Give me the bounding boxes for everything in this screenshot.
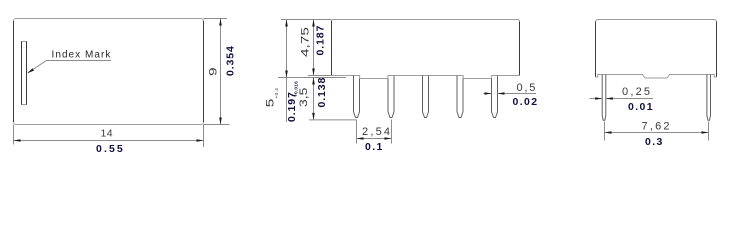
dim 2.54 left arrowhead [357, 137, 364, 140]
top view right edge (dark) [203, 21, 205, 122]
leader line to index mark [28, 61, 111, 73]
dim 2.54 extension line left [356, 120, 358, 144]
leader arrowhead [27, 68, 34, 73]
dim 3.5 bottom arrowhead [312, 113, 315, 120]
dim 3.5 top arrowhead [312, 78, 315, 85]
dim 3.5 dimension line [313, 78, 315, 120]
side view left edge (dark) [595, 22, 597, 77]
svg-text:0.01: 0.01 [628, 101, 654, 113]
svg-text:0.3: 0.3 [645, 136, 664, 148]
dim 0.25 left-pointing arrowhead [606, 97, 613, 100]
svg-text:0,25: 0,25 [622, 86, 652, 98]
dim 0.5 left line [484, 93, 492, 95]
dim 0.5 left-pointing arrowhead [498, 92, 505, 95]
front view left edge (dark) [331, 21, 333, 75]
svg-text:7,62: 7,62 [642, 120, 672, 132]
svg-text:0.138: 0.138 [316, 77, 328, 108]
dim 14 right arrowhead [197, 139, 204, 142]
dim 4.75 dimension line [313, 20, 315, 76]
svg-text:0.354: 0.354 [225, 45, 237, 76]
dim 0.5 right line and shelf [498, 93, 537, 95]
dim 14 left arrowhead [14, 139, 21, 142]
dim 2.54 right arrowhead [385, 137, 392, 140]
side view body outline with feet and center recess [596, 20, 717, 79]
index mark bar [22, 42, 27, 105]
dim 7.62 left arrowhead [605, 131, 612, 134]
dim 7.62 extension line right [708, 122, 710, 141]
dim 5 text stem [286, 78, 288, 123]
extension line top edge left [281, 19, 332, 21]
dim 9 top arrowhead [219, 19, 222, 26]
side view right edge (dark) [716, 22, 718, 77]
dim 9 bottom arrowhead [219, 118, 222, 125]
dim 5 top arrowhead [285, 20, 288, 27]
dim 5 dimension line [286, 20, 288, 78]
top view body outline [14, 19, 204, 125]
dim 7.62 extension line left [604, 122, 606, 141]
dim 9 dimension line [220, 19, 222, 125]
dim 2.54 dimension line [357, 138, 392, 140]
svg-text:Index Mark: Index Mark [52, 50, 112, 61]
extension line pin bottom [309, 119, 357, 121]
dim 9 extension line top [204, 18, 228, 20]
front view bottom edge segments across pins [388, 75, 498, 77]
extension line standoff bottom [278, 77, 346, 79]
dim 0.25 right line and shelf [606, 98, 653, 100]
front view body outline with standoff recesses [332, 20, 520, 79]
svg-text:5: 5 [264, 99, 276, 108]
dim 0.25 left line [590, 98, 603, 100]
index mark bar edges (dark) [21, 42, 23, 105]
svg-text:14: 14 [101, 128, 113, 140]
dim 4.75 top arrowhead [312, 20, 315, 27]
svg-text:0.55: 0.55 [96, 143, 125, 155]
svg-text:9: 9 [207, 67, 219, 76]
side view right pin [707, 75, 711, 121]
dim 0.5 right-pointing arrowhead [485, 92, 492, 95]
pin 3 [423, 76, 429, 118]
pin 1 [354, 76, 360, 118]
dim 14 dimension line [14, 140, 204, 142]
pin 5 [492, 76, 498, 118]
svg-text:+0.4: +0.4 [274, 88, 280, 99]
svg-text:3,5: 3,5 [297, 88, 309, 107]
svg-text:0,5: 0,5 [517, 82, 538, 94]
top view left edge (dark) [13, 21, 15, 122]
dim 4.75 bottom arrowhead [312, 69, 315, 76]
dim 14 extension line right [203, 125, 205, 148]
pin 2 [388, 76, 394, 118]
dim 5 bottom arrowhead [285, 71, 288, 78]
dim 2.54 extension line right [391, 120, 393, 144]
dim 7.62 right arrowhead [702, 131, 709, 134]
pin 4 [457, 76, 463, 118]
side view left pin [602, 75, 606, 121]
dim 7.62 dimension line [605, 132, 709, 134]
extension line body bottom [308, 75, 332, 77]
dim 14 extension line left [13, 125, 15, 145]
side view recess bottom accent [645, 77, 667, 79]
dim 0.25 right-pointing arrowhead [595, 97, 602, 100]
svg-text:2,54: 2,54 [362, 126, 392, 138]
front view right edge (dark) [519, 22, 521, 76]
svg-text:0.1: 0.1 [365, 141, 384, 153]
svg-text:0.187: 0.187 [315, 25, 327, 56]
svg-text:0.02: 0.02 [513, 96, 539, 108]
svg-text:4,75: 4,75 [299, 27, 311, 57]
dim 9 extension line bottom [204, 124, 230, 126]
